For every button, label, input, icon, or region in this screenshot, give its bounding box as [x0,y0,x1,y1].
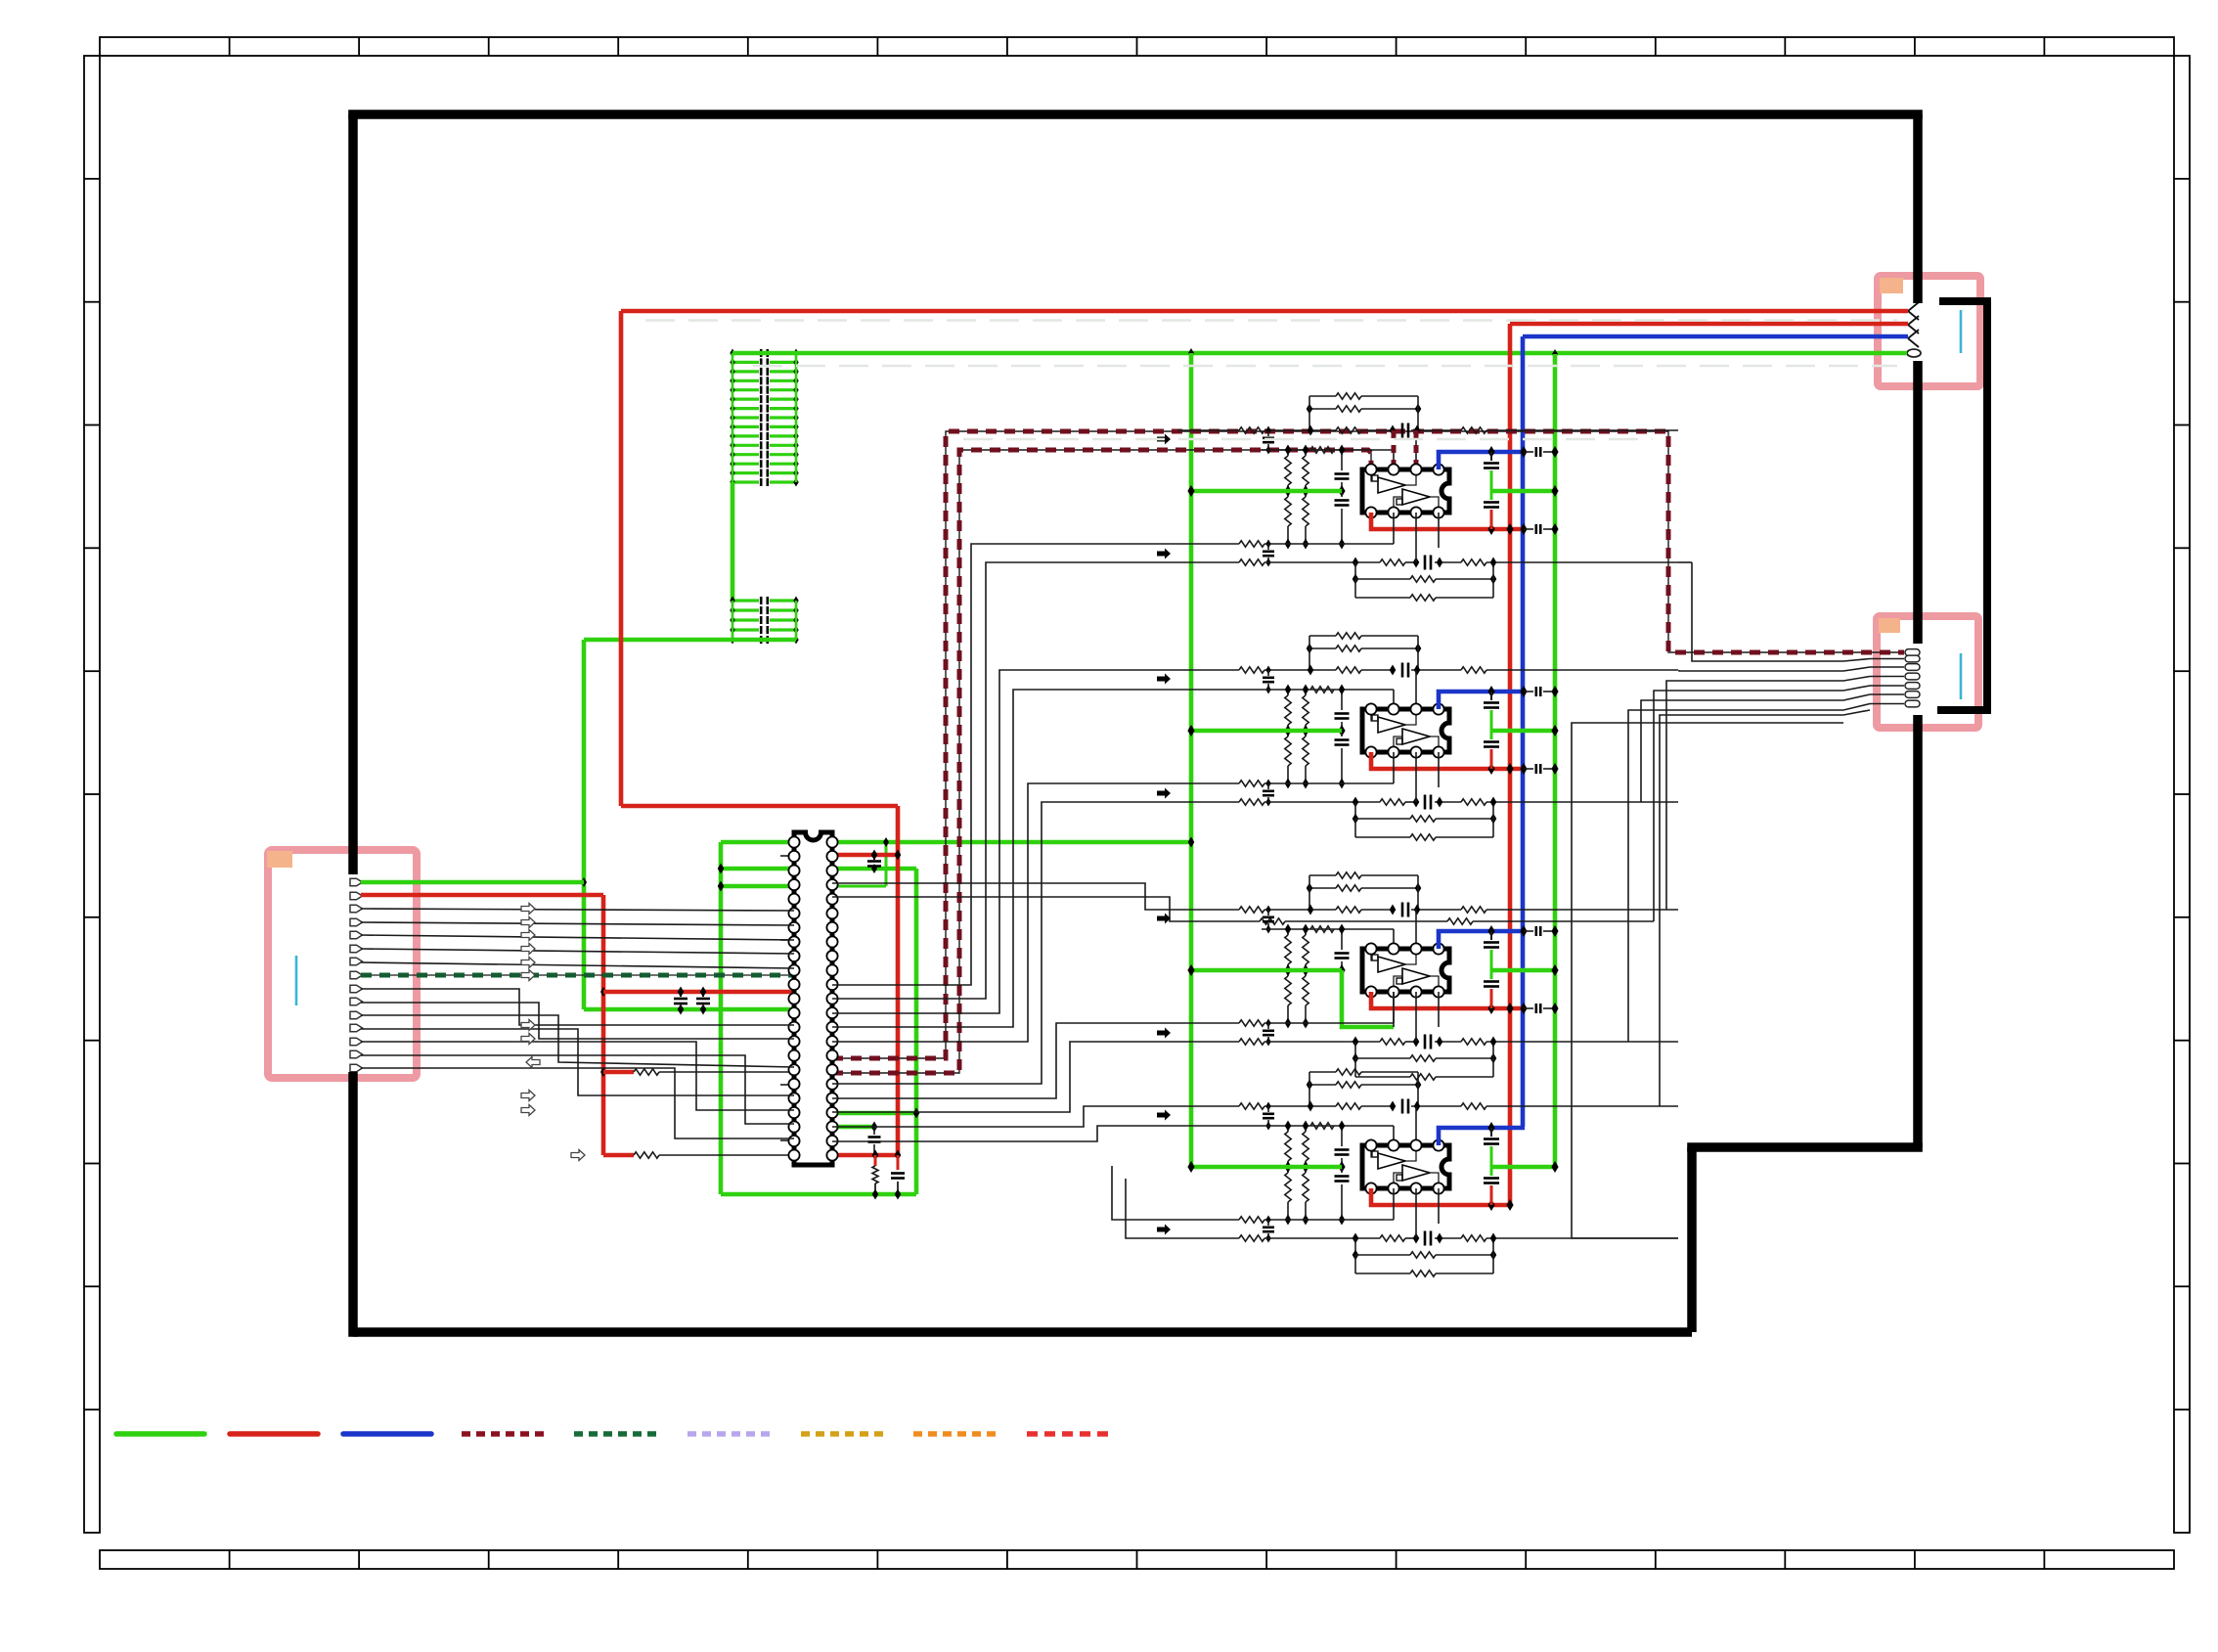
op-amp U5 pins [1365,1139,1376,1150]
amp4 long input row C [1177,1105,1239,1107]
wire green U1 row 906 west [721,884,794,889]
connector P1 polarity line [295,956,298,1005]
amp4 cap column left [1341,1126,1343,1146]
connector J2 pin 3 [1905,664,1920,671]
sheet border tick frame top [100,37,2174,56]
wire RED2 bus to J1 [1510,322,1908,327]
amp4 pair cap upper [1265,1102,1270,1111]
amp3 green signal row [1191,968,1342,973]
amp3 gain resistors left [1287,929,1289,935]
wire RED2 P1 pin2 horizontal [361,893,603,898]
U1 pin circles [788,836,799,847]
amp2 bottom row T76 [1213,782,1239,784]
amp1 feedback row B [1309,408,1336,410]
amp3 pair cap upper [1265,906,1270,915]
ghost dash under red net [645,319,1897,322]
open arrow row1181 [571,1150,585,1161]
amp2 cap column left [1341,690,1343,710]
amp1 long input row C [1177,429,1239,431]
connector P1 pin 1 [350,878,363,886]
amp3 long input row C [1177,909,1239,911]
amp4 blue row [1439,1128,1525,1145]
op-amp U5 triangles [1378,1153,1405,1169]
amp3 pair cap lower [1265,1019,1270,1028]
connector J2 body [1877,616,1978,728]
sheet border tick frame bottom [100,1550,2174,1569]
amp3 feedback stack below [1354,1042,1356,1058]
connector P1 pin 15 [350,1064,363,1072]
connector P1 pin 9 [350,985,363,993]
amp4 feedback stack below [1354,1238,1356,1255]
wire green U1 bottom rail [721,1192,916,1197]
amp1 pair cap upper [1265,426,1270,435]
resistor vertical R-U1a [874,1155,877,1166]
amp2 feedback stack below [1354,802,1356,819]
connector P1 pin 14 [350,1050,363,1058]
wire green U1 row 1152 east [832,1125,874,1130]
amp2 cap column right [1490,692,1492,700]
amp2 feedback row A [1309,635,1336,637]
wire shield-drain dashed D1 from U1 [832,431,1904,1058]
amp1 green signal row [1191,489,1342,494]
amp3 long output row T95 [1177,1041,1239,1043]
amp3 cap column right [1490,931,1492,940]
wire BLUE bus to J1 [1523,335,1908,339]
amp2 feedback row B [1309,647,1336,649]
capacitor C1014a [680,992,682,997]
cable shield boundary right edge segment mid [1913,361,1923,644]
red stub resistor row 1181 bottom [603,1153,634,1158]
connector J2 pin 7 [1905,700,1920,707]
amp4 feedback row A [1309,1071,1336,1073]
sheet border tick frame right [2174,56,2190,1533]
wire green west riser x597 [582,640,587,1009]
wire shield-drain dashed D2 from U1 [832,450,1371,1073]
amp4 gain resistors left [1287,1126,1289,1132]
cable shield boundary right edge segment lower [1913,715,1923,1147]
amp4 input row T-20 [1262,1125,1394,1127]
cable shield boundary top edge [348,110,1923,119]
connector P1 corner mark [267,851,292,868]
amplifier block 2 [1157,633,1678,840]
op-amp U5 body [1362,1145,1449,1188]
cable shield boundary step vertical [1687,1147,1697,1332]
connector P1 pin 2 [350,892,363,900]
op-amp U4 pins [1365,943,1376,954]
amp1 feedback stack below [1354,562,1356,579]
shield stub of connector J2 cable [1937,301,1987,710]
amp3 feedback row B [1309,887,1336,889]
amp4 red row [1371,1188,1510,1205]
node green riser pin1 junction [581,877,587,887]
amp4 green signal row [1191,1165,1342,1170]
cable shield boundary bottom edge [353,1327,1692,1337]
connector J1 corner mark [1880,278,1903,293]
ghost dash under drain net [963,438,1653,441]
amp1 red row [1371,513,1524,529]
amplifier block 4 [1157,1069,1678,1276]
amp4 bottom row T76 [1213,1219,1239,1221]
op-amp U4 triangles [1378,957,1405,972]
wire RED1 drop to U1 row [896,806,901,1155]
connector J2 corner mark [1879,618,1900,633]
wire RED2 bus vertical [1508,324,1513,1205]
wire RED2 drop x617 [601,895,606,1155]
wire green U1 stub 906 east [832,885,886,888]
wire green U1 west rail x737 [719,842,724,1194]
amp2 pair cap upper [1265,666,1270,675]
wire green U1 row 1138 east [832,1111,916,1116]
amp3 input row T-20 [1262,928,1394,930]
amp2 pair cap lower [1265,780,1270,788]
amp3 red row [1371,992,1524,1008]
wire green row to U1 pin [584,1007,794,1012]
cable shield boundary left edge upper [348,114,358,874]
amp1 cap column right [1490,452,1492,461]
amp2 green signal row [1191,729,1342,734]
wire green rail bundle link [731,482,735,601]
op-amp U2 triangles [1378,477,1405,493]
connector J1 pin 1 [1908,302,1919,320]
amp2 long input row C [1177,669,1239,671]
connector J2 pin 6 [1905,692,1920,698]
connector P1 pin 13 [350,1038,363,1046]
connector P1 pin 6 [350,945,363,953]
connector J1 pin 3 [1908,330,1919,347]
amp1 bottom row T76 [1213,543,1239,545]
connector P1 pin 4 [350,918,363,926]
amp3 cap column left [1341,929,1343,950]
capacitor C1014b [702,992,704,997]
connector P1 pin 12 [350,1024,363,1032]
wire green P1 pin1 [361,880,584,885]
op-amp U4 body [1362,949,1449,992]
amplifier block 3 [1157,872,1678,1080]
wire BLUE bus vertical [1521,336,1526,1127]
amp4 cap column right [1490,1128,1492,1137]
op-amp U2 pins [1365,464,1376,474]
wire dashed dark-green P1 pin8 to U1 [361,974,794,976]
amp1 blue row [1439,452,1525,469]
connector P1 body [268,850,417,1078]
connector J2 pin 2 [1905,655,1920,662]
wire RED1 west drop x635 [619,311,624,806]
node red row 1014 [600,987,606,997]
wire red row 1014 to U1 [603,990,794,995]
wire red U1 row 1181 [832,1153,898,1158]
wire GREEN top net to J1 [732,351,1907,356]
amp4 feedback row B [1309,1084,1336,1086]
connector J1 pin 4 [1907,349,1921,357]
connector P1 pin 7 [350,958,363,965]
amp2 blue row [1439,692,1525,709]
amp1 cap column left [1341,450,1343,470]
node green top / bus A [1188,348,1194,358]
op-amp array U1 body [794,832,832,1165]
cable shield boundary step horizontal [1687,1142,1923,1152]
cable shield boundary left edge lower [348,1072,358,1337]
amp1 feedback row A [1309,395,1336,397]
wire green bundle2 bottom to west riser [584,638,796,643]
wire red U1 row 874 [832,853,898,858]
connector J1 body [1878,276,1980,386]
connector J2 pin 4 [1905,673,1920,680]
legend wire colour samples [116,1431,204,1437]
wires P1 pins 3..15 to U1 [361,909,794,911]
wire green bus B vertical [1553,354,1558,1166]
amp3 bottom row T76 [1213,1022,1239,1024]
sheet border tick frame left [84,56,100,1533]
amp1 long output row T95 [1177,561,1239,563]
amp2 input row T-20 [1262,689,1394,691]
amp1 input row T-20 [1262,449,1394,451]
feeds for amp4 lower rows [832,544,1213,985]
connector P1 pin 10 [350,998,363,1005]
connector P1 pin 8 [350,971,363,979]
op-amp U3 pins [1365,703,1376,714]
cable shield boundary right edge segment upper [1913,114,1923,303]
op-amp U3 body [1362,709,1449,752]
amp1 pair cap lower [1265,540,1270,549]
amp4 long output row T95 [1177,1237,1239,1239]
connector P1 pin 11 [350,1011,363,1019]
wire green U1 row 861 west [721,840,794,845]
connector J2 polarity line [1960,653,1963,699]
wire green U1 row 888 east [832,867,916,871]
op-amp U2 body [1362,469,1449,513]
wire U1 row903 step to amp3 input row [832,883,1177,910]
connector J1 pin 2 [1908,316,1919,334]
wire green U1 row 861 east to bus A [832,840,1191,845]
bundle CB2 right rail [732,599,759,602]
connector J2 pin 5 [1905,683,1920,690]
amp4 pair cap lower [1265,1216,1270,1225]
capacitor C-1164 [873,1127,875,1135]
red stub resistor row 1096 [600,1067,606,1077]
wire green bus A vertical [1189,353,1194,1166]
U1 left pin no-connect stubs [780,855,792,857]
amp3 feedback row A [1309,874,1336,876]
connector P1 pin 5 [350,931,363,939]
wire green U1 east riser x937 [914,869,919,1194]
connector J2 pin 1 [1905,649,1920,656]
amp1 gain resistors left [1287,450,1289,456]
amp2 gain resistors left [1287,690,1289,695]
amp3 blue row [1439,931,1525,949]
bundle CB1 right rail [732,351,759,354]
open arrows on P1 wires [521,904,535,915]
connector P1 pin 3 [350,905,363,913]
node green top / bus B [1552,349,1558,359]
wire green U1 row 888 west [721,867,794,871]
wire U1 row917 long row 942 [832,897,1260,921]
amplifier block 1 [1157,393,1678,601]
wire RED1 over to U1 [621,804,898,809]
wire RED1 top net to J1 [621,309,1908,314]
capacitor vertical C-U1a [897,1155,900,1170]
ghost dash under green net [753,365,1897,368]
amp2 long output row T95 [1177,801,1239,803]
connector J1 polarity line [1960,310,1963,353]
amp2 red row [1371,752,1524,769]
riser to amp4 long out row [1692,562,1904,661]
capacitor red-green C874 [873,855,875,860]
op-amp U3 triangles [1378,717,1405,733]
